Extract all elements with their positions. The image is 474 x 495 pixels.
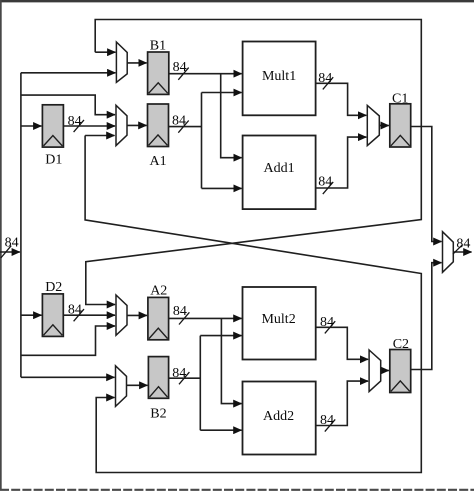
wire to Mult2 in2 <box>200 335 241 337</box>
wire A2 out to Mult2 in1 <box>169 317 242 319</box>
register B1 <box>148 52 169 94</box>
wire A1 mux to A1 <box>127 124 147 126</box>
scan top edge artifact <box>0 0 474 3</box>
svg-text:Add1: Add1 <box>264 161 295 176</box>
mux before A2 <box>116 295 127 335</box>
wire feedback crossing into A1 mux bottom <box>85 135 114 137</box>
register C2 <box>390 350 411 393</box>
wire A1 out junction <box>169 93 202 189</box>
bus width slash Add2 <box>325 419 335 431</box>
wire Mult2 out to C2 mux <box>316 327 368 359</box>
bus width slash A1 <box>178 121 188 133</box>
mux before C2 <box>369 350 381 392</box>
svg-text:84: 84 <box>173 60 187 75</box>
wire to Add2 in2 <box>200 429 241 431</box>
svg-text:84: 84 <box>456 237 470 252</box>
wire branch to Add2 in1 <box>221 318 241 403</box>
wire branch to Add1 in1 <box>221 74 242 158</box>
wire input to B2 mux top <box>21 376 115 378</box>
bus width slash input <box>1 246 11 258</box>
svg-text:84: 84 <box>5 235 19 250</box>
wire A2 mux to A2 <box>127 314 147 316</box>
wire input to D2 <box>21 314 42 316</box>
bus width slash A2 <box>179 312 189 324</box>
scan bottom dashed rule <box>0 489 474 491</box>
mux before A1 <box>116 105 127 145</box>
svg-text:C2: C2 <box>393 337 409 352</box>
svg-text:84: 84 <box>173 304 187 319</box>
block Add2 <box>243 382 316 455</box>
wire feedback loop top: to B1 mux and crossing to A2 mux <box>86 20 422 305</box>
register D1 <box>42 105 63 147</box>
wire B2 out junction <box>169 336 201 431</box>
block Mult1 <box>243 42 316 116</box>
wire B2 mux to B2 <box>127 384 148 386</box>
svg-text:B1: B1 <box>150 39 166 54</box>
wire D2 to A2 mux middle <box>63 314 115 316</box>
wire C1 mux to C1 <box>379 125 389 127</box>
bus width slash B1 <box>178 68 188 80</box>
register A2 <box>148 297 169 339</box>
bus width slash D2 <box>74 309 84 321</box>
svg-text:D2: D2 <box>45 280 62 295</box>
wire to Add1 in2 <box>202 187 242 189</box>
wire C1 out to output mux <box>411 127 442 242</box>
mux output stage <box>443 232 454 273</box>
bus width slash D1 <box>74 120 84 132</box>
bus width slash B2 <box>179 372 189 384</box>
svg-text:C1: C1 <box>392 91 408 106</box>
wire input to B1 mux <box>21 72 116 74</box>
svg-text:A1: A1 <box>150 154 167 169</box>
svg-text:84: 84 <box>172 113 186 128</box>
mux before B1 <box>116 42 127 82</box>
svg-text:Mult1: Mult1 <box>262 69 296 84</box>
bus width slash Mult2 <box>325 321 335 333</box>
register B2 <box>148 357 168 399</box>
svg-text:84: 84 <box>318 71 332 86</box>
register D2 <box>42 294 63 337</box>
wire feedback into B1 mux top <box>95 51 115 53</box>
wire Add2 out to C2 mux <box>316 381 368 425</box>
svg-text:B2: B2 <box>150 407 166 422</box>
wire main input <box>0 251 20 253</box>
wire Mult1 out to C1 mux <box>316 83 367 115</box>
svg-text:Mult2: Mult2 <box>261 312 295 327</box>
wire input to D1 <box>21 125 42 127</box>
scan left edge artifact <box>0 0 2 489</box>
svg-text:84: 84 <box>318 175 332 190</box>
wire Add1 out to C1 mux <box>316 137 367 188</box>
wire C2 mux to C2 <box>381 370 389 372</box>
wire input to A1 mux top <box>21 95 115 115</box>
wire B1 mux to B1 <box>127 62 146 64</box>
svg-text:84: 84 <box>320 413 334 428</box>
register C1 <box>390 104 411 147</box>
wire to Mult1 in2 <box>202 92 242 94</box>
mux before B2 <box>116 366 127 407</box>
wire feedback loop bottom: to B2 mux and crossing to A1 mux <box>85 136 421 473</box>
svg-text:84: 84 <box>172 366 186 381</box>
bus width slash Add1 <box>323 182 333 194</box>
wire C2 out to output mux <box>411 263 442 370</box>
mux before C1 <box>367 105 379 145</box>
wire main input bus vertical <box>20 73 22 378</box>
svg-text:84: 84 <box>320 315 334 330</box>
svg-text:A2: A2 <box>150 284 167 299</box>
block Add1 <box>243 136 316 210</box>
wire D1 to A1 mux middle <box>63 125 115 127</box>
wire B1 out to Mult1 in1 <box>169 73 242 75</box>
bus width slash output <box>453 245 462 254</box>
svg-text:84: 84 <box>68 303 82 318</box>
wire result output <box>453 251 471 253</box>
svg-text:Add2: Add2 <box>263 409 294 424</box>
wire input to A2 mux bottom <box>21 326 115 355</box>
svg-text:84: 84 <box>68 114 82 129</box>
svg-text:D1: D1 <box>45 153 62 168</box>
register A1 <box>148 104 169 147</box>
bus width slash Mult1 <box>323 77 333 89</box>
block Mult2 <box>243 287 316 360</box>
